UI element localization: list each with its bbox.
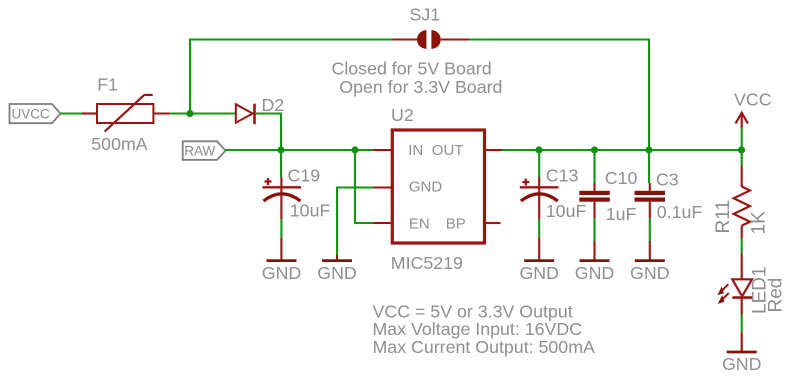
svg-text:Open for 3.3V Board: Open for 3.3V Board	[339, 77, 502, 97]
capacitor C3	[635, 151, 666, 260]
wire resistor to LED	[741, 238, 743, 254]
ground LED1	[722, 332, 762, 374]
svg-text:Max Current Output: 500mA: Max Current Output: 500mA	[373, 337, 596, 357]
node RAW flag	[183, 141, 226, 160]
node junction R11	[738, 146, 745, 153]
ground C19	[262, 261, 302, 284]
wire OUT to output net	[502, 149, 742, 151]
svg-text:C19: C19	[288, 165, 321, 185]
svg-text:IN: IN	[408, 142, 423, 159]
svg-text:0.1uF: 0.1uF	[657, 202, 703, 222]
wire VCC node to resistor	[741, 150, 743, 166]
svg-text:C13: C13	[546, 165, 579, 185]
ground C3	[630, 261, 670, 284]
wire UVCC to fuse	[61, 112, 83, 114]
wire GND pin to gnd net	[337, 188, 374, 256]
svg-text:Red: Red	[766, 278, 787, 313]
IC U2	[374, 130, 503, 243]
wire junction to diode	[190, 112, 236, 114]
svg-text:BP: BP	[446, 215, 466, 232]
node junction C3	[645, 146, 652, 153]
svg-text:C3: C3	[656, 170, 679, 190]
svg-text:10uF: 10uF	[546, 201, 587, 221]
svg-text:MIC5219: MIC5219	[391, 253, 463, 273]
svg-text:GND: GND	[630, 263, 670, 283]
svg-text:GND: GND	[317, 263, 357, 283]
svg-text:Closed for 5V Board: Closed for 5V Board	[332, 59, 492, 79]
svg-text:C10: C10	[605, 168, 638, 188]
capacitor C19	[262, 151, 301, 260]
wire EN tap down and right	[355, 150, 374, 223]
wire top right down	[648, 39, 650, 151]
node junction fuse/diode	[186, 110, 193, 117]
LED LED1	[717, 254, 752, 315]
svg-text:10uF: 10uF	[290, 200, 331, 220]
ground C13	[519, 261, 559, 284]
svg-text:GND: GND	[262, 263, 302, 283]
capacitor C10	[579, 151, 610, 260]
svg-text:500mA: 500mA	[91, 134, 147, 154]
svg-text:U2: U2	[391, 105, 414, 125]
wire fuse to junction	[170, 112, 190, 114]
fuse F1	[82, 95, 170, 132]
power VCC	[734, 90, 772, 151]
svg-text:1K: 1K	[749, 211, 770, 235]
node junction diode/RAW	[277, 146, 284, 153]
wire top horizontal left	[189, 38, 393, 40]
svg-text:GND: GND	[722, 354, 762, 374]
svg-text:GND: GND	[575, 263, 615, 283]
capacitor C13	[520, 151, 559, 260]
svg-text:F1: F1	[97, 75, 118, 95]
svg-text:EN: EN	[409, 215, 430, 232]
svg-text:RAW: RAW	[184, 143, 215, 158]
wire diode to corner	[256, 114, 281, 151]
node junction C10	[591, 146, 598, 153]
wire top horizontal right	[469, 38, 650, 40]
solder jumper SJ1	[393, 30, 470, 49]
ground C10	[575, 261, 615, 284]
svg-text:D2: D2	[262, 95, 285, 115]
svg-text:UVCC: UVCC	[11, 106, 50, 121]
wire RAW to IN pin	[226, 149, 374, 151]
ground U2	[317, 255, 357, 283]
svg-text:GND: GND	[519, 263, 559, 283]
svg-text:SJ1: SJ1	[410, 4, 441, 24]
svg-text:VCC: VCC	[734, 90, 772, 110]
wire LED to ground	[741, 315, 743, 333]
node junction EN tap	[351, 146, 358, 153]
svg-text:OUT: OUT	[432, 142, 464, 159]
svg-text:GND: GND	[409, 179, 443, 196]
svg-text:1uF: 1uF	[606, 204, 637, 224]
svg-text:Max Voltage Input: 16VDC: Max Voltage Input: 16VDC	[373, 319, 583, 339]
diode D2	[236, 104, 255, 125]
node junction C13	[535, 146, 542, 153]
resistor R11	[734, 166, 750, 238]
wire junction up	[189, 39, 191, 115]
svg-text:R11: R11	[713, 200, 734, 233]
node UVCC flag	[10, 104, 61, 123]
